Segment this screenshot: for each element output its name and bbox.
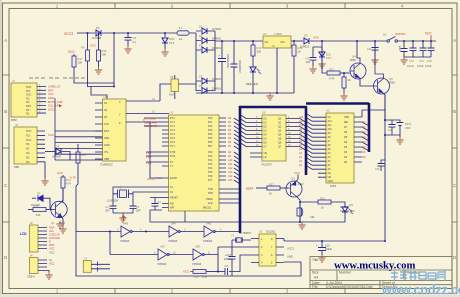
connector J2 xyxy=(14,127,37,164)
svg-text:D4: D4 xyxy=(228,133,232,136)
svg-text:VCC: VCC xyxy=(26,94,31,97)
svg-text:D0: D0 xyxy=(228,117,232,120)
svg-text:D1: D1 xyxy=(228,121,232,124)
svg-text:VCC: VCC xyxy=(49,247,55,251)
node D labels right of U3 xyxy=(363,121,367,159)
svg-text:L7805: L7805 xyxy=(274,32,282,36)
connector J3 LCD xyxy=(30,225,39,252)
wire crystal to MCU X1 X2 xyxy=(113,187,162,194)
svg-text:SCL: SCL xyxy=(49,229,55,233)
svg-text:LCD-RxD: LCD-RxD xyxy=(49,236,60,240)
svg-text:A9: A9 xyxy=(228,155,232,158)
svg-text:D55: D55 xyxy=(169,37,175,41)
wire Q3 emitter down xyxy=(297,197,301,223)
svg-text:4.7K: 4.7K xyxy=(329,77,335,81)
svg-text:U5: U5 xyxy=(262,111,266,115)
svg-text:F1: F1 xyxy=(179,26,183,30)
resistor R15 4.7K xyxy=(77,144,79,152)
wire rectified rail to U7 xyxy=(215,40,263,42)
svg-text:U4B: U4B xyxy=(123,222,128,226)
svg-text:LCD: LCD xyxy=(20,232,27,236)
svg-text:NC: NC xyxy=(26,109,30,112)
wire P0 bus entries xyxy=(226,118,240,203)
wire battery to ground xyxy=(399,135,401,137)
svg-text:2: 2 xyxy=(171,3,174,8)
svg-text:1: 1 xyxy=(56,3,59,8)
svg-text:U3: U3 xyxy=(326,109,330,113)
svg-text:A8: A8 xyxy=(299,132,303,135)
pins U3 right with bus entries xyxy=(354,117,369,162)
IC U3 6264 xyxy=(326,113,354,183)
wire Q1 emitter down xyxy=(62,217,64,226)
svg-text:4: 4 xyxy=(220,228,222,231)
pins U3 left with bus entries xyxy=(306,113,326,177)
wire VCC3 to D6 xyxy=(77,32,95,34)
connector J1 xyxy=(11,83,37,117)
svg-text:8550: 8550 xyxy=(11,118,17,122)
connector J4 USB xyxy=(30,258,39,274)
wire R17 down to loop xyxy=(74,67,114,83)
svg-text:1N4148: 1N4148 xyxy=(92,36,102,40)
svg-text:220uF/16V: 220uF/16V xyxy=(238,60,242,73)
svg-text:X2: X2 xyxy=(259,230,263,234)
svg-text:A12: A12 xyxy=(228,167,233,170)
svg-text:D3: D3 xyxy=(363,141,367,144)
svg-text:A5: A5 xyxy=(299,144,303,147)
svg-text:RST: RST xyxy=(48,88,54,92)
svg-text:74HC04: 74HC04 xyxy=(157,263,167,266)
capacitor C20 xyxy=(381,160,385,163)
zener ZD1 5.1V xyxy=(321,41,323,52)
RTC X2 DS1302 xyxy=(259,234,276,266)
junction dots xyxy=(87,32,166,87)
svg-text:D: D xyxy=(453,255,456,260)
wire Q1 collector up xyxy=(62,188,64,202)
pins J4 xyxy=(38,260,47,271)
svg-text:WR: WR xyxy=(170,207,174,210)
svg-text:A8: A8 xyxy=(228,151,232,154)
svg-text:A10: A10 xyxy=(299,124,304,127)
svg-text:P23: P23 xyxy=(208,163,213,166)
svg-text:D7: D7 xyxy=(199,74,203,78)
svg-text:A10: A10 xyxy=(328,128,333,131)
svg-text:4.7K: 4.7K xyxy=(70,176,76,180)
svg-text:GND: GND xyxy=(104,144,110,147)
node D0-D7 labels xyxy=(228,117,232,148)
svg-text:Vin: Vin xyxy=(265,40,269,44)
svg-text:VCC: VCC xyxy=(294,171,300,175)
svg-text:A4: A4 xyxy=(314,276,318,280)
svg-text:RED LED: RED LED xyxy=(246,82,258,86)
svg-text:U4D: U4D xyxy=(195,245,200,249)
ground under C6 xyxy=(124,46,131,53)
svg-text:CLK: CLK xyxy=(104,123,109,126)
wire battery backup vertical xyxy=(384,95,386,241)
wire U8 pins xyxy=(175,75,196,99)
svg-text:A9: A9 xyxy=(299,128,303,131)
svg-text:3: 3 xyxy=(117,228,119,231)
svg-text:NC: NC xyxy=(26,97,30,100)
svg-text:PSEN: PSEN xyxy=(206,198,213,201)
svg-text:3: 3 xyxy=(286,289,289,294)
resistor R22 1K xyxy=(343,72,345,74)
svg-text:P1.6: P1.6 xyxy=(170,141,176,144)
svg-text:U1: U1 xyxy=(170,111,174,115)
node net labels at U6 xyxy=(144,117,157,129)
svg-text:P1.1: P1.1 xyxy=(170,121,176,124)
svg-text:U8: U8 xyxy=(170,75,174,79)
diode D6 1N4148 xyxy=(96,30,101,36)
svg-text:BEEP: BEEP xyxy=(246,187,254,191)
capacitor C9 104 xyxy=(313,47,322,57)
battery BAT1 3.6V xyxy=(385,120,400,122)
diode small red mark xyxy=(59,104,62,107)
svg-text:C10_BAT: C10_BAT xyxy=(48,104,60,108)
IC U6 card interface xyxy=(103,99,127,161)
svg-text:11: 11 xyxy=(208,251,211,254)
svg-text:4.7K: 4.7K xyxy=(66,183,71,186)
svg-text:Y3: Y3 xyxy=(84,257,88,261)
zener D55 5.1V xyxy=(164,33,166,37)
svg-text:INT0: INT0 xyxy=(170,151,176,154)
zone ticks top xyxy=(115,3,345,9)
crystal module Y3 xyxy=(83,261,91,273)
wire U6 card nets to MCU xyxy=(144,118,162,126)
svg-text:4: 4 xyxy=(401,3,404,8)
capacitor C11 xyxy=(374,41,376,47)
svg-text:ALE: ALE xyxy=(208,202,213,205)
svg-text:D: D xyxy=(4,255,7,260)
svg-text:D6: D6 xyxy=(96,26,100,30)
svg-text:P02: P02 xyxy=(208,125,213,128)
bus vertical left xyxy=(239,106,242,233)
svg-text:D8: D8 xyxy=(199,84,203,88)
svg-text:D2: D2 xyxy=(363,146,367,149)
svg-text:NC: NC xyxy=(26,101,30,104)
svg-text:D1: D1 xyxy=(199,24,203,28)
bus vertical middle xyxy=(305,106,308,175)
wire R21 to Q4 base xyxy=(340,72,350,74)
junction C19 xyxy=(321,240,323,242)
svg-text:VCC: VCC xyxy=(57,171,63,175)
svg-text:P04: P04 xyxy=(208,133,213,136)
resistor R18 10K xyxy=(98,33,100,50)
svg-text:VCC: VCC xyxy=(49,250,55,254)
svg-text:4: 4 xyxy=(140,228,142,231)
resistor R19 300 xyxy=(252,41,254,45)
crystal Y2 32.768KHz xyxy=(232,239,246,241)
bus horizontal top right xyxy=(306,102,369,105)
svg-text:11.0592M: 11.0592M xyxy=(107,200,118,203)
zone ticks bottom xyxy=(115,289,345,294)
svg-text:10: 10 xyxy=(173,251,176,254)
zone ticks right xyxy=(452,75,457,222)
wire mcu gnd pin down xyxy=(184,211,186,222)
svg-text:1N4148: 1N4148 xyxy=(52,155,61,158)
svg-text:A15: A15 xyxy=(228,179,233,182)
svg-text:C: C xyxy=(453,183,456,188)
svg-text:(VCC): (VCC) xyxy=(147,177,155,181)
svg-text:P1.4: P1.4 xyxy=(170,133,176,136)
resistor R13 1K xyxy=(318,200,331,204)
svg-text:3: 3 xyxy=(286,3,289,8)
wire R12 to node xyxy=(206,271,218,273)
wire D11 to gnd rail xyxy=(300,213,345,223)
wire U4A out xyxy=(179,231,204,233)
title block xyxy=(310,257,452,289)
svg-text:SDA: SDA xyxy=(49,226,55,230)
transistor Q4 8550 xyxy=(350,63,367,79)
svg-text:C15: C15 xyxy=(427,59,432,63)
svg-text:1N4001: 1N4001 xyxy=(212,77,222,81)
node A labels left of U3 xyxy=(299,116,304,167)
svg-text:U4C: U4C xyxy=(160,245,165,249)
pin numbers U5 xyxy=(256,117,291,147)
svg-text:TDO: TDO xyxy=(26,130,31,133)
svg-text:D7: D7 xyxy=(37,191,41,195)
switch S1 ONOFF xyxy=(387,40,389,42)
wire to Q3 base xyxy=(280,187,288,189)
svg-text:Y1: Y1 xyxy=(118,186,122,190)
svg-text:A: A xyxy=(4,38,7,43)
svg-text:0.1uF: 0.1uF xyxy=(407,64,414,68)
svg-text:300: 300 xyxy=(257,50,262,54)
svg-text:100uF: 100uF xyxy=(325,248,333,251)
wire DS1302 supply run xyxy=(284,240,385,242)
pins U1 left xyxy=(162,118,169,208)
svg-text:C14: C14 xyxy=(419,59,424,63)
fuse F1 xyxy=(177,31,189,35)
svg-text:C12: C12 xyxy=(398,46,401,51)
svg-text:R21: R21 xyxy=(329,67,334,71)
diode D1 1N4001 xyxy=(202,28,207,34)
svg-text:P1.7: P1.7 xyxy=(170,145,176,148)
svg-text:S1: S1 xyxy=(383,33,387,37)
LED D11 GREEN xyxy=(342,207,348,212)
svg-text:P07: P07 xyxy=(208,145,213,148)
svg-text:RST-CARD: RST-CARD xyxy=(144,124,157,128)
svg-text:D:\Design\MCS51\MCS51.Ddb: D:\Design\MCS51\MCS51.Ddb xyxy=(326,285,373,289)
capacitor C14 0.1uF xyxy=(422,41,424,48)
svg-text:D+: D+ xyxy=(49,259,53,262)
diode D9 1N4001 xyxy=(304,38,309,44)
svg-text:R19: R19 xyxy=(257,46,262,50)
IC U5 74LS373 xyxy=(262,115,286,161)
capacitor C13 0.1uF xyxy=(412,41,414,48)
svg-text:A2: A2 xyxy=(299,156,303,159)
wire mcu bottom rail xyxy=(150,210,300,222)
ground under C19 xyxy=(318,255,325,262)
pins J1 xyxy=(37,87,46,114)
svg-text:NC: NC xyxy=(328,116,332,119)
svg-text:P1.3: P1.3 xyxy=(170,129,176,132)
svg-text:R17: R17 xyxy=(78,57,83,61)
svg-text:2: 2 xyxy=(184,228,186,231)
svg-text:D5: D5 xyxy=(363,131,367,134)
pins Y3 xyxy=(91,264,102,269)
svg-text:LCD2-16: LCD2-16 xyxy=(49,233,60,237)
svg-text:P05: P05 xyxy=(208,137,213,140)
svg-text:74HC04: 74HC04 xyxy=(203,240,213,243)
reset capacitor C4 xyxy=(150,198,162,204)
svg-text:E: E xyxy=(49,240,51,244)
svg-text:RXD: RXD xyxy=(208,192,213,195)
wire U4B out xyxy=(131,231,169,233)
capacitor C6 xyxy=(127,33,129,37)
annotation chinese note xyxy=(29,77,85,79)
svg-text:VCC: VCC xyxy=(48,133,54,137)
svg-text:32.768KHz: 32.768KHz xyxy=(239,232,252,235)
svg-text:VCC: VCC xyxy=(425,31,432,35)
wire osc loop left xyxy=(102,232,110,269)
svg-text:D7: D7 xyxy=(363,121,367,124)
pins X2 right xyxy=(276,239,284,263)
svg-text:10K: 10K xyxy=(36,214,41,217)
svg-text:C20: C20 xyxy=(375,168,380,171)
svg-text:10K: 10K xyxy=(78,61,83,65)
svg-text:1: 1 xyxy=(56,289,59,294)
svg-text:C9: C9 xyxy=(306,57,310,61)
svg-text:74HC04: 74HC04 xyxy=(168,240,178,243)
svg-text:P25: P25 xyxy=(208,171,213,174)
svg-text:30P: 30P xyxy=(136,210,141,213)
transistor Q6 8550 xyxy=(373,78,390,94)
svg-text:R13: R13 xyxy=(320,197,325,200)
svg-text:G: G xyxy=(273,44,275,48)
ground under Q1 xyxy=(59,226,66,233)
svg-text:1N4001: 1N4001 xyxy=(212,27,222,31)
svg-text:8550: 8550 xyxy=(389,81,395,85)
diode D7b 1N4148 xyxy=(32,197,36,199)
svg-text:(VCC): (VCC) xyxy=(48,107,56,111)
svg-text:ZD1: ZD1 xyxy=(326,52,331,56)
regulator U7 L7805 xyxy=(263,36,291,48)
wire R13 to D11 xyxy=(331,202,345,207)
svg-text:BAT1: BAT1 xyxy=(405,122,412,126)
svg-text:P03: P03 xyxy=(208,129,213,132)
wire U7 out rail xyxy=(291,40,303,42)
svg-text:C13: C13 xyxy=(409,59,414,63)
svg-text:1N4001: 1N4001 xyxy=(212,37,222,41)
inverter U4A xyxy=(169,226,180,237)
svg-text:A0: A0 xyxy=(299,164,303,167)
LED D10 RED xyxy=(252,56,254,67)
ground on rail xyxy=(266,93,273,100)
svg-text:P22: P22 xyxy=(208,159,213,162)
svg-text:C4: C4 xyxy=(158,201,162,204)
wire bridge anode bus xyxy=(196,31,201,91)
svg-text:C1: C1 xyxy=(106,206,110,209)
pins U5 right with bus entries xyxy=(286,119,306,151)
pins X2 left xyxy=(251,239,259,263)
svg-text:9: 9 xyxy=(154,251,156,254)
svg-text:A12: A12 xyxy=(328,120,333,123)
wire caps join xyxy=(113,213,133,215)
sheet edge strip xyxy=(0,0,2,297)
svg-text:J1: J1 xyxy=(12,79,15,83)
wire caps bottom rail xyxy=(404,56,431,58)
svg-text:A10: A10 xyxy=(228,159,233,162)
svg-text:1K: 1K xyxy=(321,207,324,210)
wire U4C out xyxy=(168,254,193,256)
wire to DS1302 pins xyxy=(218,247,251,272)
svg-text:RST: RST xyxy=(104,130,109,133)
pins U6 left xyxy=(95,103,103,159)
svg-text:OE: OE xyxy=(328,176,332,179)
svg-text:Size: Size xyxy=(312,271,319,275)
svg-text:89C51: 89C51 xyxy=(203,206,212,210)
svg-text:VBB: VBB xyxy=(104,158,109,161)
svg-text:D6: D6 xyxy=(228,141,232,144)
wire J1 bus to U6 xyxy=(55,98,103,160)
svg-text:A4: A4 xyxy=(299,148,303,151)
ground at J3 xyxy=(56,221,63,228)
svg-text:C18: C18 xyxy=(388,129,393,132)
zone ticks left xyxy=(3,75,10,222)
wire X2 pin8 to supply xyxy=(283,239,285,242)
svg-text:Q1: Q1 xyxy=(51,221,55,225)
svg-text:5.1V: 5.1V xyxy=(169,41,175,45)
diode D3 1N4001 xyxy=(202,47,207,53)
svg-text:VCC: VCC xyxy=(183,270,189,274)
svg-text:+5V: +5V xyxy=(280,40,285,44)
svg-text:CE: CE xyxy=(328,172,332,175)
svg-text:0.1: 0.1 xyxy=(133,40,137,44)
svg-text:USB-A: USB-A xyxy=(27,275,35,279)
svg-text:U7: U7 xyxy=(263,32,267,36)
wire U3 vcc to battery rail xyxy=(362,110,385,120)
svg-text:1N4001: 1N4001 xyxy=(300,45,310,49)
svg-text:WE: WE xyxy=(344,121,348,124)
svg-text:B: B xyxy=(4,109,7,114)
svg-text:4.7K: 4.7K xyxy=(202,276,207,279)
svg-text:VCC: VCC xyxy=(48,92,54,96)
ground under R18 xyxy=(95,67,102,74)
svg-text:C: C xyxy=(4,183,7,188)
svg-text:NC: NC xyxy=(26,156,30,159)
svg-text:VCC: VCC xyxy=(90,44,96,48)
svg-text:104: 104 xyxy=(306,60,311,64)
node CARD_IO labels xyxy=(48,85,63,112)
svg-text:+C17: +C17 xyxy=(225,254,232,257)
ground crystal xyxy=(119,215,126,222)
svg-text:VCC: VCC xyxy=(26,139,31,142)
svg-text:1K: 1K xyxy=(348,78,351,82)
svg-text:EA/VP: EA/VP xyxy=(170,177,178,180)
svg-text:D6: D6 xyxy=(363,126,367,129)
svg-text:74LS373: 74LS373 xyxy=(261,163,272,167)
svg-text:Title: Title xyxy=(312,258,318,262)
capacitor C3 30P xyxy=(132,194,134,206)
diode D2 1N4001 xyxy=(202,38,207,44)
wire Q6 collector down xyxy=(384,94,386,121)
svg-text:DS1302: DS1302 xyxy=(266,230,276,234)
diode D8 1N4001 xyxy=(202,88,207,94)
transistor Q3 9012 xyxy=(286,181,302,197)
svg-text:P00: P00 xyxy=(208,117,213,120)
diode D7 1N4001 xyxy=(202,78,207,84)
svg-text:U4A: U4A xyxy=(171,222,176,226)
svg-text:R/W: R/W xyxy=(49,243,55,247)
svg-text:9012: 9012 xyxy=(298,183,304,186)
svg-text:U4E: U4E xyxy=(206,222,211,226)
ground beep rail xyxy=(298,222,305,229)
ground under ZD1 xyxy=(318,61,325,68)
wire U7 gnd pin xyxy=(276,48,278,93)
svg-text:1N4001: 1N4001 xyxy=(212,46,222,50)
svg-text:6264: 6264 xyxy=(330,184,336,188)
svg-text:1K: 1K xyxy=(269,193,272,196)
